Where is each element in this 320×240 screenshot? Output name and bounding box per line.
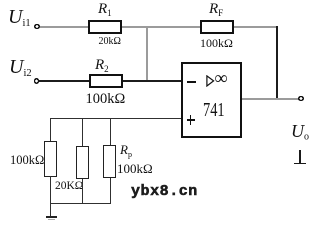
value 100kΩ Rp — [117, 161, 153, 177]
resistor 20K vertical — [76, 146, 89, 179]
wire Ui2 to R2 — [39, 80, 89, 82]
wire R1 to RF — [122, 26, 200, 28]
label Uo — [291, 121, 309, 143]
label R1 — [98, 1, 112, 18]
op-amp U1 741 — [181, 62, 242, 138]
wire output node vertical — [276, 26, 278, 99]
value 100kΩ R2 — [86, 91, 126, 108]
ground — [44, 215, 60, 222]
watermark ybx8.cn — [131, 183, 198, 200]
label RF — [209, 1, 223, 18]
label R2 — [95, 57, 109, 74]
wire noninverting bus — [50, 118, 181, 119]
value 20KΩ — [55, 180, 83, 192]
value 100kΩ RF — [200, 36, 233, 51]
wire vertical resistor 2 bottom — [82, 179, 83, 204]
wire vertical resistor 3 bottom — [110, 178, 111, 204]
wire drop to vertical resistor 3 — [110, 118, 111, 146]
resistor 100k vertical — [44, 141, 58, 177]
node Ui1 label — [8, 6, 31, 29]
ground reference at output — [294, 149, 307, 165]
wire node down to inverting input — [146, 26, 148, 82]
resistor Rp — [103, 145, 116, 178]
terminal output — [298, 96, 303, 101]
node Ui2 label — [9, 56, 32, 79]
wire ground stem — [50, 203, 52, 216]
wire vertical resistor 1 bottom — [50, 176, 51, 204]
wire op-amp output — [242, 98, 299, 100]
value 20kΩ — [99, 36, 121, 47]
value 100kΩ left — [10, 153, 44, 168]
terminal Ui1 — [34, 24, 39, 29]
wire R2 to inverting input — [123, 80, 181, 82]
wire drop to vertical resistor 2 — [82, 118, 83, 147]
wire Ui1 to R1 — [40, 26, 88, 28]
label Rp — [120, 142, 132, 159]
wire RF to output node — [234, 26, 277, 28]
wire bottom bus — [50, 203, 111, 204]
resistor R1 — [88, 20, 122, 34]
wire drop to vertical resistor 1 — [50, 118, 51, 142]
terminal Ui2 — [34, 78, 39, 83]
resistor R2 — [89, 74, 123, 88]
resistor RF — [200, 20, 234, 34]
